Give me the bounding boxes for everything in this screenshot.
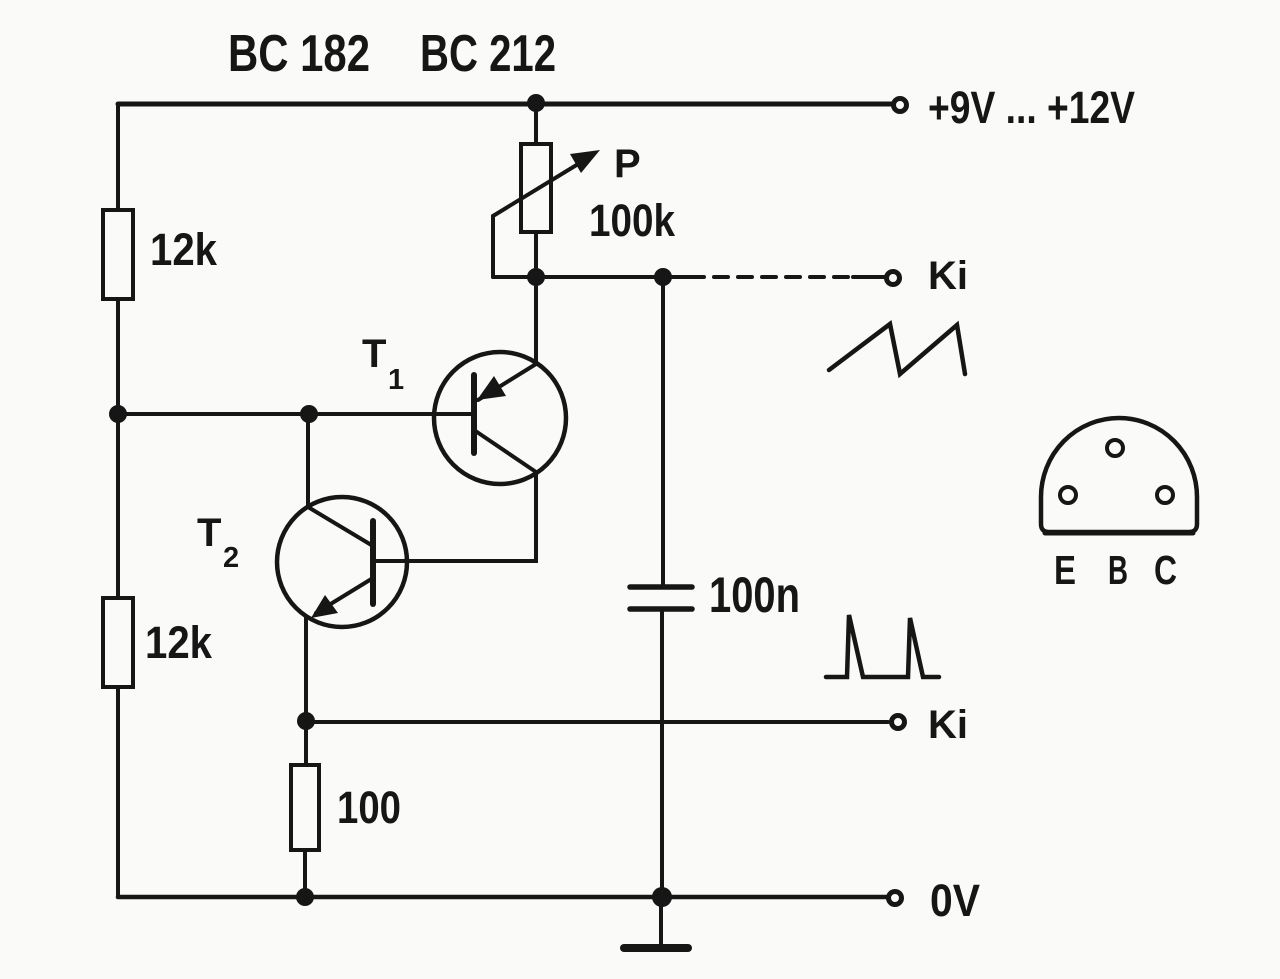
potentiometer P arrow — [493, 158, 588, 216]
wire T2 emitter vertical — [304, 617, 308, 722]
svg-text:E: E — [1054, 547, 1076, 593]
wire left vertical middle — [116, 299, 120, 598]
svg-text:T: T — [197, 511, 221, 555]
node cap-rail junction — [652, 887, 672, 907]
wire bottom rail — [118, 895, 887, 900]
svg-text:12k: 12k — [145, 617, 213, 668]
svg-text:0V: 0V — [930, 875, 980, 926]
wire T1 collector to T2 base — [375, 472, 536, 561]
potentiometer P body — [521, 144, 551, 232]
node left-base junction — [109, 405, 127, 423]
ground stub — [659, 897, 663, 945]
svg-text:C: C — [1154, 547, 1177, 593]
package pin C — [1157, 487, 1173, 503]
wire to Ki lower — [306, 720, 888, 724]
wire T2 collector vertical — [306, 414, 310, 507]
node supply-pot junction — [527, 94, 545, 112]
node resistor-rail junction — [296, 888, 314, 906]
transistor T1 circle — [434, 352, 566, 484]
svg-text:P: P — [614, 142, 641, 186]
transistor T1 collector diagonal — [474, 430, 536, 472]
wire left vertical top — [116, 104, 120, 210]
wire dashed to Ki upper — [663, 275, 690, 279]
transistor T2 base bar — [370, 521, 376, 604]
wire T1 emitter vertical — [534, 277, 538, 364]
waveform sawtooth — [829, 324, 965, 374]
resistor R2 12k — [103, 598, 133, 687]
wire base rail — [118, 412, 472, 416]
node base-T2 junction — [300, 405, 318, 423]
wire capacitor bottom lead — [660, 609, 664, 897]
capacitor C1 100n — [630, 584, 692, 590]
wire 100 bottom lead — [303, 850, 307, 897]
node emitter-Ki junction — [297, 712, 315, 730]
svg-text:BC 212: BC 212 — [420, 25, 556, 83]
wire left vertical bottom — [116, 687, 120, 897]
wire pot wiper down — [491, 216, 495, 277]
svg-text:100: 100 — [337, 782, 401, 833]
resistor R1 12k — [103, 210, 133, 299]
svg-text:BC 182: BC 182 — [228, 25, 370, 83]
package TO-92 outline — [1041, 418, 1197, 532]
terminal +9V — [894, 99, 907, 112]
terminal Ki upper — [887, 272, 900, 285]
waveform pulses — [826, 615, 939, 677]
ground bar — [624, 944, 688, 952]
transistor T2 circle — [277, 497, 407, 627]
transistor T2 emitter diagonal — [316, 578, 373, 613]
svg-text:T: T — [362, 332, 386, 376]
package pin B — [1107, 440, 1123, 456]
svg-text:+9V ... +12V: +9V ... +12V — [928, 82, 1135, 133]
terminal 0V — [889, 892, 902, 905]
wire top supply rail — [118, 102, 891, 107]
node pot-emitter junction — [527, 268, 545, 286]
transistor T2 collector diagonal — [308, 507, 373, 546]
svg-text:2: 2 — [223, 542, 239, 574]
node cap-top junction — [654, 268, 672, 286]
wire 100 top lead — [304, 722, 308, 765]
wire pot bottom lead — [534, 232, 538, 277]
transistor T1 emitter diagonal — [478, 364, 536, 400]
package pin E — [1060, 487, 1076, 503]
transistor T1 base bar — [471, 375, 477, 453]
svg-text:100n: 100n — [709, 567, 800, 623]
svg-text:12k: 12k — [150, 224, 218, 275]
svg-text:1: 1 — [388, 364, 404, 396]
wire pot top lead — [534, 103, 538, 144]
svg-text:B: B — [1108, 547, 1128, 593]
wire capacitor top lead — [661, 277, 665, 585]
svg-text:Ki: Ki — [928, 254, 968, 298]
svg-text:Ki: Ki — [928, 703, 968, 747]
resistor R3 100 — [291, 765, 319, 850]
terminal Ki lower — [892, 716, 905, 729]
wire wiper to node — [493, 275, 664, 279]
svg-text:100k: 100k — [589, 195, 676, 246]
